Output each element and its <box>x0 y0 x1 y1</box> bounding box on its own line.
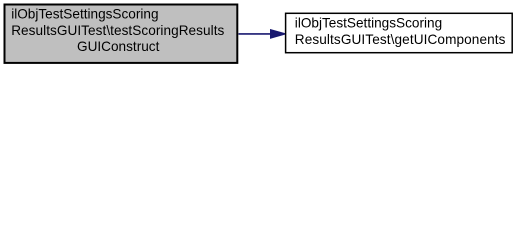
svg-text:ResultsGUITest\testScoringResu: ResultsGUITest\testScoringResults <box>11 23 224 38</box>
svg-text:GUIConstruct: GUIConstruct <box>77 39 160 54</box>
node getUIComponents (callee, white) <box>286 13 513 52</box>
svg-text:ilObjTestSettingsScoring: ilObjTestSettingsScoring <box>295 16 442 31</box>
wire <box>239 33 272 35</box>
node testScoringResultsGUIConstruct (current, grey) <box>5 5 238 63</box>
svg-text:ilObjTestSettingsScoring: ilObjTestSettingsScoring <box>11 7 158 22</box>
edge arrow <box>239 30 286 39</box>
svg-text:ResultsGUITest\getUIComponents: ResultsGUITest\getUIComponents <box>295 32 506 47</box>
